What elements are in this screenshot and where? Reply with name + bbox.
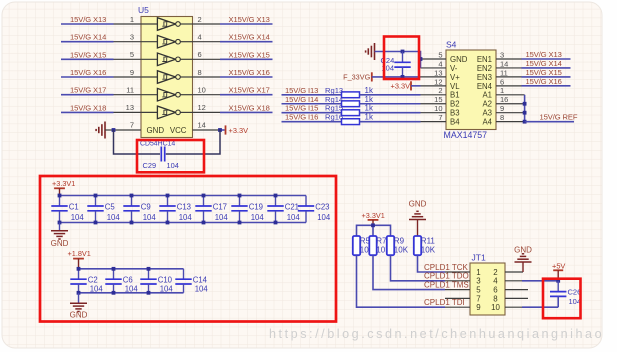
capacitor C9 104 <box>123 196 156 223</box>
svg-text:15V/G X15: 15V/G X15 <box>70 50 106 59</box>
svg-text:EN3: EN3 <box>477 73 492 82</box>
junction A4 <box>523 120 527 124</box>
svg-text:5: 5 <box>130 50 134 59</box>
capacitor C24 104 <box>381 52 411 77</box>
svg-text:104: 104 <box>125 285 139 294</box>
svg-text:15V/G X13: 15V/G X13 <box>526 50 562 59</box>
svg-text:CPLD1 TDO: CPLD1 TDO <box>424 272 469 281</box>
svg-text:Rg16: Rg16 <box>325 113 343 122</box>
svg-text:+3.3V: +3.3V <box>391 82 411 91</box>
U5 pin 6 stub <box>193 50 221 59</box>
red highlight box around C29 <box>137 140 204 172</box>
wire net 15V/G X13 (U5 input row 1) <box>61 15 114 24</box>
wire JT1 pin 4 to +5V <box>522 280 558 282</box>
capacitor C2 104 <box>70 269 103 294</box>
wire net 15V/G REF <box>525 113 578 122</box>
svg-text:13: 13 <box>126 103 134 112</box>
junction <box>130 194 134 198</box>
svg-text:GND: GND <box>450 55 468 64</box>
svg-text:C19: C19 <box>249 203 263 212</box>
svg-text:C29: C29 <box>143 161 157 170</box>
U5 pin 5 stub <box>114 50 142 59</box>
capacitor C26 104 <box>550 281 581 307</box>
power port +5V <box>552 261 565 281</box>
svg-text:104: 104 <box>317 213 331 222</box>
svg-text:5: 5 <box>476 286 481 295</box>
U5 pin 14 VCC stub <box>170 121 220 135</box>
svg-text:15V/G X14: 15V/G X14 <box>70 33 106 42</box>
S4 pin 4 V- stub <box>421 59 458 73</box>
svg-text:4: 4 <box>198 33 202 42</box>
svg-text:C10: C10 <box>158 276 173 285</box>
svg-text:15V/G I16: 15V/G I16 <box>285 113 318 122</box>
wire GND net to S4 pins 5 and 4 <box>375 52 421 68</box>
svg-text:9: 9 <box>500 104 504 113</box>
capacitor C19 104 <box>231 196 264 223</box>
svg-text:GND: GND <box>51 239 69 248</box>
power port +3.3V at U5 VCC <box>220 125 248 135</box>
wire R7 top lead <box>372 225 374 236</box>
svg-text:R9: R9 <box>394 237 405 246</box>
resistor R11 10K <box>414 236 436 255</box>
svg-text:104: 104 <box>143 213 157 222</box>
S4 pin 10 B3 stub <box>421 104 460 118</box>
svg-text:9: 9 <box>476 303 481 312</box>
junction <box>147 267 151 271</box>
junction <box>94 221 98 225</box>
wire GND bottom bus row 2 <box>79 292 184 294</box>
ground symbol at JT1 pin 2 <box>514 245 532 272</box>
svg-text:104: 104 <box>251 213 265 222</box>
S4 pin 6 EN4 stub <box>477 77 522 91</box>
wire joining S4 pins A1-A4 <box>524 95 526 122</box>
connector JT1 header body <box>470 252 505 315</box>
S4 pin 15 B2 stub <box>421 95 460 109</box>
svg-text:15V/G X18: 15V/G X18 <box>70 103 106 112</box>
svg-text:C6: C6 <box>123 276 133 285</box>
ground symbol at U5 pin 7 <box>96 122 113 139</box>
wire Rg14 to S4 pin 15 <box>360 103 421 105</box>
svg-text:6: 6 <box>493 286 498 295</box>
svg-text:S4: S4 <box>446 40 457 50</box>
svg-text:A1: A1 <box>482 91 492 100</box>
svg-text:11: 11 <box>126 86 134 95</box>
svg-text:104: 104 <box>569 297 582 306</box>
svg-text:R7: R7 <box>376 237 387 246</box>
svg-text:15V/G I14: 15V/G I14 <box>285 95 318 104</box>
svg-text:+3.3V1: +3.3V1 <box>362 211 385 220</box>
ground symbol above R11 <box>409 200 427 237</box>
junction at C24 top <box>401 50 405 54</box>
svg-text:C2: C2 <box>88 276 98 285</box>
port F_33VG <box>343 72 372 81</box>
svg-text:12: 12 <box>198 103 206 112</box>
svg-text:6: 6 <box>198 50 202 59</box>
capacitor C10 104 <box>140 269 173 294</box>
svg-text:V-: V- <box>450 64 458 73</box>
resistor Rg16 1k <box>325 113 374 125</box>
wire net CPLD1_TCK <box>418 255 469 272</box>
U5 pin 10 stub <box>193 86 221 95</box>
svg-text:15: 15 <box>434 95 442 104</box>
svg-text:3: 3 <box>476 277 481 286</box>
svg-text:14: 14 <box>198 121 206 130</box>
svg-text:A2: A2 <box>482 100 492 109</box>
junction at U5 pin 7 node <box>112 128 116 132</box>
svg-text:7: 7 <box>476 294 480 303</box>
red highlight box around C24 <box>384 37 419 80</box>
resistor Rg13 1k <box>325 86 374 98</box>
inverter gate 6 of U5 <box>141 111 157 113</box>
junction at S4 pin 5 <box>419 57 423 61</box>
svg-text:104: 104 <box>179 213 193 222</box>
wire net CPLD1_TDO <box>391 255 469 281</box>
svg-text:3: 3 <box>500 50 504 59</box>
power port +1.8V1 for cap bank row 2 <box>68 249 91 269</box>
svg-text:104: 104 <box>160 285 174 294</box>
svg-text:15V/G X17: 15V/G X17 <box>70 86 106 95</box>
svg-text:2: 2 <box>438 86 442 95</box>
svg-text:C21: C21 <box>285 203 299 212</box>
ground symbol at S4 GND <box>366 43 375 60</box>
capacitor C23 104 <box>298 196 331 223</box>
svg-text:15V/G I15: 15V/G I15 <box>285 104 318 113</box>
wire net CPLD1_TMS <box>373 255 469 289</box>
capacitor C1 104 <box>51 196 84 223</box>
inverter gate 4 of U5 <box>141 76 157 78</box>
svg-text:15V/G X13: 15V/G X13 <box>70 15 106 24</box>
svg-text:X15V/G X18: X15V/G X18 <box>229 103 270 112</box>
svg-text:104: 104 <box>215 213 229 222</box>
svg-text:CD54HC14: CD54HC14 <box>140 141 175 148</box>
wire JT1 pin 10 to C26 <box>522 306 558 308</box>
svg-text:6: 6 <box>500 77 504 86</box>
JT1 pin 7 stub <box>445 294 481 303</box>
wire net 15V/G I15 <box>282 104 342 113</box>
svg-text:B4: B4 <box>450 118 460 127</box>
S4 pin 13 V+ stub <box>421 68 461 82</box>
capacitor C13 104 <box>159 196 192 223</box>
resistor R9 10K <box>387 236 409 255</box>
svg-text:GND: GND <box>70 311 88 320</box>
svg-text:10K: 10K <box>421 246 436 255</box>
U5 pin 12 stub <box>193 103 221 112</box>
junction <box>77 267 81 271</box>
junction <box>112 291 116 295</box>
svg-text:2: 2 <box>493 268 497 277</box>
svg-text:+3.3V1: +3.3V1 <box>52 179 75 188</box>
U5 pin 8 stub <box>193 68 221 77</box>
svg-text:+3.3V: +3.3V <box>229 126 249 135</box>
capacitor C6 104 <box>105 269 138 294</box>
wire net X15V/G X14 (U5 output row 2) <box>220 33 273 42</box>
wire net X15V/G X18 (U5 output row 6) <box>220 103 273 112</box>
U5 pin 7 GND stub <box>114 121 165 135</box>
svg-text:104: 104 <box>71 213 85 222</box>
wire net CPLD1_TDI <box>357 255 465 307</box>
svg-text:104: 104 <box>167 161 179 170</box>
svg-text:3: 3 <box>130 33 134 42</box>
svg-text:+5V: +5V <box>552 261 565 270</box>
svg-text:14: 14 <box>500 59 508 68</box>
svg-text:https://blog.csdn.net/chenhuan: https://blog.csdn.net/chenhuanqiangnihao <box>269 327 604 341</box>
power port +3.3V at S4 VL <box>391 81 412 90</box>
svg-text:104: 104 <box>195 285 209 294</box>
wire net 15V/G X16 (U5 input row 4) <box>61 68 114 77</box>
inverter gate 2 of U5 <box>141 41 157 43</box>
svg-text:CPLD1 TCK: CPLD1 TCK <box>424 263 469 272</box>
wire net X15V/G X13 (U5 output row 1) <box>220 15 273 24</box>
S4 pin 5 GND stub <box>421 50 468 64</box>
svg-text:X15V/G X14: X15V/G X14 <box>229 33 270 42</box>
svg-text:5: 5 <box>438 50 442 59</box>
wire net 15V/G X14 (U5 input row 2) <box>61 33 114 42</box>
svg-text:7: 7 <box>130 121 134 130</box>
ground symbol for cap bank row 1 <box>51 223 69 249</box>
svg-text:10K: 10K <box>394 246 409 255</box>
svg-text:CPLD1 TDI: CPLD1 TDI <box>424 298 465 307</box>
S4 pin 12 VL stub <box>421 77 461 91</box>
svg-text:R11: R11 <box>421 237 436 246</box>
svg-text:15V/G REF: 15V/G REF <box>540 113 578 122</box>
wire net 15V/G X15 (S4 EN3) <box>522 68 571 77</box>
svg-text:Rg14: Rg14 <box>325 95 343 104</box>
inverter gate 3 of U5 <box>141 58 157 60</box>
capacitor C5 104 <box>87 196 120 223</box>
U5 pin 11 stub <box>114 86 142 95</box>
svg-text:10: 10 <box>198 86 206 95</box>
junction <box>274 194 278 198</box>
JT1 pin 3 stub <box>445 277 481 286</box>
JT1 pin 9 stub <box>445 303 481 312</box>
resistor R7 10K <box>369 236 391 255</box>
wire net X15V/G X16 (U5 output row 4) <box>220 68 273 77</box>
wire net 15V/G I16 <box>282 113 342 122</box>
JT1 pin 4 stub <box>505 280 522 282</box>
svg-text:11: 11 <box>500 68 508 77</box>
svg-text:1: 1 <box>500 86 504 95</box>
JT1 pin 5 stub <box>445 286 481 295</box>
wire net 15V/G I13 <box>282 86 342 95</box>
junction <box>274 221 278 225</box>
IC S4 MAX14757 analog switch body <box>444 40 497 141</box>
capacitor C21 104 <box>267 196 300 223</box>
S4 pin 7 B4 stub <box>421 113 461 127</box>
S4 pin 9 A3 stub <box>482 104 524 118</box>
svg-text:9: 9 <box>130 68 134 77</box>
svg-text:EN2: EN2 <box>477 64 492 73</box>
junction <box>202 221 206 225</box>
U5 pin 4 stub <box>193 33 221 42</box>
svg-text:GND: GND <box>514 245 532 254</box>
U5 pin 3 stub <box>114 33 142 42</box>
S4 pin 8 A4 stub <box>482 113 524 127</box>
junction at JT1 pin 4 / +5V / C26 <box>556 279 560 283</box>
junction at C24 bottom <box>401 75 405 79</box>
svg-text:12: 12 <box>434 77 442 86</box>
junction <box>238 194 242 198</box>
svg-text:V+: V+ <box>450 73 460 82</box>
S4 pin 2 B1 stub <box>421 86 460 100</box>
svg-text:1k: 1k <box>365 95 374 104</box>
wire GND bottom bus row 1 <box>60 222 307 224</box>
wire net 15V/G X13 (S4 EN1) <box>522 50 571 59</box>
svg-text:A4: A4 <box>482 118 492 127</box>
junction <box>166 194 170 198</box>
svg-text:8: 8 <box>493 294 498 303</box>
svg-text:X15V/G X16: X15V/G X16 <box>229 68 270 77</box>
svg-text:1k: 1k <box>365 104 374 113</box>
svg-text:Rg15: Rg15 <box>325 104 343 113</box>
svg-text:CPLD1 TMS: CPLD1 TMS <box>424 280 469 289</box>
wire net 15V/G I14 <box>282 95 342 104</box>
svg-text:104: 104 <box>287 213 301 222</box>
junction <box>130 221 134 225</box>
svg-text:4: 4 <box>493 277 498 286</box>
wire net 15V/G X18 (U5 input row 6) <box>61 103 114 112</box>
junction <box>77 291 81 295</box>
svg-text:1k: 1k <box>365 113 374 122</box>
wire net 15V/G X16 (S4 EN4) <box>522 77 571 86</box>
junction <box>58 194 62 198</box>
svg-text:13: 13 <box>434 68 442 77</box>
svg-text:1k: 1k <box>365 86 374 95</box>
capacitor C14 104 <box>175 269 208 294</box>
wire net X15V/G X17 (U5 output row 5) <box>220 86 273 95</box>
junction <box>238 221 242 225</box>
wire C29 bypass loop <box>114 130 221 154</box>
svg-text:EN1: EN1 <box>477 55 492 64</box>
ground symbol for cap bank row 2 <box>70 293 88 320</box>
svg-text:MAX14757: MAX14757 <box>444 130 488 140</box>
junction <box>112 267 116 271</box>
svg-text:EN4: EN4 <box>477 82 493 91</box>
svg-text:A3: A3 <box>482 109 492 118</box>
red highlight box around C26 <box>543 279 581 319</box>
wire net 15V/G X17 (U5 input row 5) <box>61 86 114 95</box>
IC U5 CD54HC14 hex schmitt inverter body <box>138 5 193 138</box>
JT1 pin 6 stub <box>505 289 528 291</box>
U5 pin 2 stub <box>193 15 221 24</box>
power port +3.3V1 for cap bank row 1 <box>52 179 75 196</box>
wire net 15V/G X14 (S4 EN2) <box>522 59 571 68</box>
svg-text:X15V/G X13: X15V/G X13 <box>229 15 270 24</box>
S4 pin 3 EN1 stub <box>477 50 522 64</box>
wire net X15V/G X15 (U5 output row 3) <box>220 50 273 59</box>
JT1 pin 10 stub <box>505 306 522 308</box>
wire Rg15 to S4 pin 10 <box>360 112 421 114</box>
svg-text:15V/G X14: 15V/G X14 <box>526 59 562 68</box>
svg-text:B2: B2 <box>450 100 460 109</box>
svg-text:C23: C23 <box>315 203 329 212</box>
junction at R7 top <box>371 223 375 227</box>
svg-text:8: 8 <box>500 113 504 122</box>
svg-text:X15V/G X17: X15V/G X17 <box>229 86 270 95</box>
wire Rg13 to S4 pin 2 <box>360 94 421 96</box>
wire net 15V/G X15 (U5 input row 3) <box>61 50 114 59</box>
svg-text:16: 16 <box>500 95 508 104</box>
wire +3.3V to S4 pin 12 <box>411 85 421 87</box>
inverter gate 1 of U5 <box>141 23 157 25</box>
U5 pin 13 stub <box>114 103 142 112</box>
svg-text:10: 10 <box>434 104 442 113</box>
svg-text:1: 1 <box>476 268 480 277</box>
svg-text:VL: VL <box>450 82 460 91</box>
junction <box>147 291 151 295</box>
wire +3.3V1 bus to R5 R7 R9 <box>357 225 391 236</box>
inverter gate 5 of U5 <box>141 94 157 96</box>
S4 pin 16 A2 stub <box>482 95 524 109</box>
svg-text:15V/G I13: 15V/G I13 <box>285 86 318 95</box>
svg-text:F_33VG: F_33VG <box>343 73 370 82</box>
junction <box>166 221 170 225</box>
svg-text:GND: GND <box>147 126 165 135</box>
U5 pin 1 stub <box>114 15 142 24</box>
junction <box>94 194 98 198</box>
svg-text:C13: C13 <box>177 203 191 212</box>
resistor Rg14 1k <box>325 95 374 107</box>
S4 pin 14 EN2 stub <box>477 59 522 73</box>
svg-text:15V/G X16: 15V/G X16 <box>526 77 562 86</box>
svg-text:GND: GND <box>409 200 427 209</box>
svg-text:JT1: JT1 <box>472 252 486 262</box>
svg-text:Rg13: Rg13 <box>325 86 343 95</box>
JT1 pin 2 stub to ground <box>505 271 523 273</box>
junction <box>202 194 206 198</box>
junction A3 <box>523 111 527 115</box>
svg-text:15V/G X16: 15V/G X16 <box>70 68 106 77</box>
svg-text:C5: C5 <box>105 203 116 212</box>
S4 pin 1 A1 stub <box>482 86 524 100</box>
svg-text:2: 2 <box>198 15 202 24</box>
wire +3.3V1 top bus row 1 <box>60 195 307 197</box>
junction at U5 pin 14 node <box>218 128 222 132</box>
svg-text:10: 10 <box>491 303 500 312</box>
capacitor C17 104 <box>195 196 228 223</box>
wire Rg16 to S4 pin 7 <box>360 121 421 123</box>
svg-text:B3: B3 <box>450 109 460 118</box>
resistor R5 10K <box>353 236 375 255</box>
S4 pin 11 EN3 stub <box>477 68 522 82</box>
svg-text:X15V/G X15: X15V/G X15 <box>229 50 270 59</box>
svg-text:C1: C1 <box>69 203 79 212</box>
svg-text:8: 8 <box>198 68 202 77</box>
svg-text:+1.8V1: +1.8V1 <box>68 249 91 258</box>
resistor Rg15 1k <box>325 104 374 116</box>
JT1 pin 1 stub <box>445 268 481 277</box>
svg-text:104: 104 <box>107 213 121 222</box>
junction <box>58 221 62 225</box>
svg-text:15V/G X15: 15V/G X15 <box>526 68 562 77</box>
svg-text:VCC: VCC <box>170 126 187 135</box>
svg-text:C9: C9 <box>141 203 151 212</box>
wire +1.8V1 top bus row 2 <box>79 268 184 270</box>
svg-text:1: 1 <box>130 15 134 24</box>
junction A2 <box>523 102 527 106</box>
power port +3.3V1 for JTAG pullups <box>362 211 385 225</box>
red highlight box around decoupling capacitor bank <box>40 176 336 322</box>
svg-text:C17: C17 <box>213 203 227 212</box>
svg-text:C14: C14 <box>193 276 208 285</box>
svg-text:U5: U5 <box>138 5 149 15</box>
svg-text:4: 4 <box>438 59 442 68</box>
svg-text:B1: B1 <box>450 91 460 100</box>
wire F_33VG to S4 pin 13 <box>372 76 421 78</box>
JT1 pin 8 stub <box>505 297 528 299</box>
svg-text:7: 7 <box>438 113 442 122</box>
capacitor C29 104 <box>143 147 179 171</box>
U5 pin 9 stub <box>114 68 142 77</box>
